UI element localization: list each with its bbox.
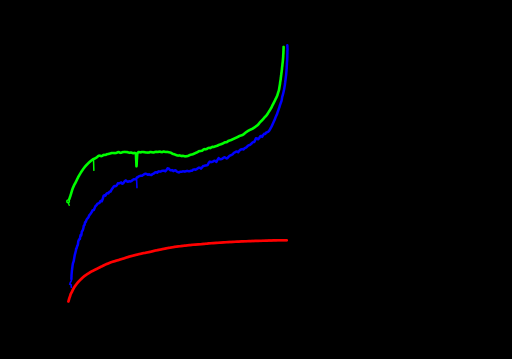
green spike dip at x=93.6: [93, 159, 95, 170]
blue curve: [71, 45, 287, 279]
green curve start knot: [67, 199, 70, 206]
red curve: [68, 240, 286, 301]
green curve: [69, 47, 283, 199]
blue curve start knot: [70, 281, 72, 288]
blue spike dip at x=136.9: [136, 180, 138, 188]
